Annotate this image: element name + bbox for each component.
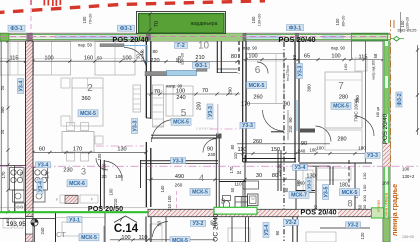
svg-text:120: 120 [360,232,365,240]
svg-text:130+20: 130+20 [141,49,145,61]
svg-text:260: 260 [253,95,262,101]
svg-text:POS 20/40: POS 20/40 [382,113,389,144]
svg-text:210: 210 [277,169,282,177]
svg-text:У3-3: У3-3 [297,66,303,77]
svg-text:240: 240 [208,152,216,157]
svg-text:У3-3: У3-3 [173,158,184,164]
svg-text:100: 100 [248,54,257,60]
svg-text:180: 180 [358,146,366,151]
svg-text:170: 170 [45,171,50,179]
svg-text:170: 170 [20,172,24,178]
svg-text:100: 100 [97,153,102,161]
svg-text:100: 100 [82,16,87,24]
svg-text:100: 100 [109,188,114,196]
svg-text:30: 30 [256,173,262,179]
svg-text:193,95: 193,95 [6,221,26,228]
svg-text:пар. 90: пар. 90 [331,45,346,50]
svg-text:200: 200 [197,102,203,111]
svg-text:100: 100 [115,174,123,179]
svg-text:130: 130 [117,147,126,153]
svg-text:5: 5 [181,108,187,119]
svg-text:POS 20/40: POS 20/40 [278,35,315,44]
svg-text:8: 8 [347,199,352,209]
svg-text:100: 100 [176,89,185,95]
svg-text:130+20: 130+20 [181,53,185,65]
svg-text:30: 30 [362,204,367,209]
svg-text:100: 100 [362,184,367,191]
svg-text:70: 70 [154,21,160,27]
svg-text:100: 100 [251,16,256,24]
svg-text:СТ: СТ [56,230,66,239]
svg-text:50: 50 [136,54,141,59]
svg-text:У3-5: У3-5 [323,187,329,198]
svg-text:отвора: отвора [377,199,381,212]
svg-text:130+2: 130+2 [402,174,415,179]
svg-text:МСК-6: МСК-6 [69,181,85,187]
svg-text:100: 100 [331,54,340,60]
svg-text:МСК-5: МСК-5 [342,190,358,196]
svg-text:90: 90 [275,230,280,235]
svg-text:У3-4: У3-4 [38,163,49,169]
svg-text:20: 20 [0,85,5,90]
svg-text:У3-4: У3-4 [18,81,24,92]
svg-text:100: 100 [122,56,131,62]
svg-text:У3-4: У3-4 [264,225,270,236]
svg-text:МСК-5: МСК-5 [172,238,188,242]
svg-text:70: 70 [154,89,160,95]
svg-text:6: 6 [255,65,261,76]
svg-text:70: 70 [202,88,208,94]
svg-text:50: 50 [230,187,235,192]
svg-text:100: 100 [402,167,410,172]
svg-text:240: 240 [40,227,45,235]
svg-text:110: 110 [238,147,247,153]
svg-text:МСК-5: МСК-5 [333,104,349,110]
svg-text:W: W [251,197,255,201]
svg-text:80: 80 [230,144,235,149]
svg-text:жардињера: жардињера [191,21,218,27]
svg-text:МСК-5: МСК-5 [173,120,189,126]
svg-text:hr=270cm: hr=270cm [286,65,290,81]
svg-text:180: 180 [339,183,348,189]
svg-text:У3-2: У3-2 [286,220,297,226]
svg-text:50: 50 [221,198,226,204]
svg-text:100: 100 [362,194,367,201]
svg-text:90: 90 [288,117,293,123]
svg-text:360: 360 [81,96,90,102]
svg-text:4: 4 [199,173,204,183]
svg-text:У3-3: У3-3 [242,123,253,129]
svg-text:У3-3: У3-3 [367,153,378,159]
svg-text:180: 180 [382,181,390,186]
svg-text:ФЗ-1: ФЗ-1 [195,63,207,69]
svg-text:58: 58 [373,53,378,58]
svg-text:290: 290 [228,87,233,95]
svg-text:170: 170 [241,102,250,108]
svg-text:60: 60 [39,147,45,153]
svg-text:У3-3: У3-3 [306,180,311,189]
svg-text:80: 80 [277,163,282,168]
svg-text:POS 20/40: POS 20/40 [112,35,148,44]
svg-text:160: 160 [343,63,348,70]
svg-text:пар. 50: пар. 50 [78,43,93,48]
svg-text:У3-4: У3-4 [295,165,306,171]
svg-text:100: 100 [316,146,324,151]
svg-text:390: 390 [355,95,360,103]
svg-text:490: 490 [175,174,184,180]
svg-text:7: 7 [338,81,344,92]
svg-text:240: 240 [176,95,185,101]
svg-text:Г-2: Г-2 [177,43,185,49]
svg-text:100: 100 [121,235,130,241]
svg-text:80: 80 [292,55,297,61]
svg-text:210: 210 [195,55,204,61]
svg-text:230: 230 [63,168,72,174]
svg-text:130+20: 130+20 [258,14,262,27]
svg-text:110: 110 [139,235,148,241]
svg-text:90: 90 [284,102,290,108]
svg-text:115: 115 [359,55,368,61]
svg-text:210: 210 [288,125,293,133]
svg-text:ФЗ-2: ФЗ-2 [397,93,403,105]
svg-text:DB2-Ø125: DB2-Ø125 [398,27,418,32]
svg-text:280: 280 [339,95,348,101]
svg-text:90: 90 [301,141,307,147]
svg-text:3: 3 [81,167,86,177]
svg-text:380: 380 [0,106,5,113]
svg-text:210: 210 [167,203,172,211]
svg-text:У3-3: У3-3 [132,121,138,132]
svg-text:210: 210 [102,163,107,171]
svg-text:10: 10 [198,41,210,52]
svg-text:20: 20 [0,129,5,134]
svg-text:У3-2: У3-2 [348,223,359,229]
svg-text:300: 300 [307,84,312,92]
svg-text:L e v e r o: L e v e r o [197,127,212,131]
svg-text:линија градње: линија градње [390,184,399,236]
svg-text:115: 115 [10,56,19,62]
svg-text:130: 130 [362,172,367,179]
svg-text:ФЗ-1: ФЗ-1 [10,26,22,32]
svg-text:100: 100 [44,56,53,62]
svg-text:170: 170 [73,147,82,153]
svg-text:260: 260 [175,183,183,188]
svg-text:50: 50 [175,57,180,62]
svg-text:170: 170 [229,166,234,174]
svg-text:У3-3: У3-3 [208,106,214,117]
svg-text:50: 50 [97,56,102,61]
svg-text:160: 160 [84,56,93,62]
svg-text:34: 34 [237,170,242,175]
svg-text:140: 140 [160,185,165,193]
svg-text:ФЗ-1: ФЗ-1 [289,26,301,32]
svg-text:110: 110 [233,152,238,159]
svg-text:240: 240 [298,149,306,154]
svg-text:150: 150 [271,147,280,153]
svg-text:110: 110 [234,182,242,187]
svg-text:65: 65 [304,54,310,60]
svg-text:90: 90 [284,187,289,192]
svg-text:МСК-5: МСК-5 [81,235,97,241]
svg-text:POS 20/50: POS 20/50 [88,204,123,213]
svg-text:зона отвора: зона отвора [384,192,389,217]
svg-text:POS 20/40: POS 20/40 [300,208,336,217]
svg-text:ПОС 20/40: ПОС 20/40 [213,213,220,242]
svg-text:50: 50 [157,221,162,227]
svg-text:20: 20 [101,174,107,179]
svg-text:У3-4: У3-4 [38,181,44,192]
svg-text:260: 260 [253,139,262,145]
svg-text:У3-1: У3-1 [69,218,80,224]
svg-text:130+20: 130+20 [402,235,414,239]
svg-text:пар. 90: пар. 90 [243,45,258,50]
svg-text:МСК-5: МСК-5 [80,111,96,117]
svg-text:C.14: C.14 [114,223,139,235]
svg-text:80: 80 [152,49,158,54]
svg-text:100: 100 [335,18,340,26]
svg-text:160 цм: 160 цм [376,107,380,117]
svg-text:МСК-5: МСК-5 [249,83,265,89]
svg-text:220: 220 [150,58,159,64]
svg-text:МСК-5: МСК-5 [192,190,208,196]
svg-text:70+20: 70+20 [89,14,93,25]
svg-text:280: 280 [337,137,346,143]
svg-text:2: 2 [87,83,93,94]
svg-text:100: 100 [167,195,172,203]
svg-text:80+20: 80+20 [342,16,346,27]
svg-text:У3-2: У3-2 [193,221,204,227]
svg-text:МСК-7: МСК-7 [291,193,307,199]
svg-text:80: 80 [231,54,237,60]
svg-text:260: 260 [297,181,305,186]
svg-text:ФЗ-1: ФЗ-1 [120,26,132,32]
svg-text:170: 170 [1,171,6,179]
svg-text:напр.зид 160: напр.зид 160 [372,60,376,79]
